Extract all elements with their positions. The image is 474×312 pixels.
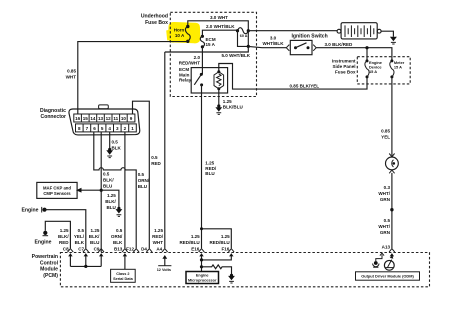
svg-text:RED/BLU: RED/BLU [179,240,199,245]
wire 3.0 BLK/RED [316,42,392,60]
svg-text:0.5: 0.5 [112,140,119,145]
fuse Engine Device 15A [365,59,383,78]
svg-text:1.25: 1.25 [191,234,200,239]
junction dots E16/F16 merge [200,258,203,268]
svg-text:1.25: 1.25 [91,228,100,233]
ground (1.25 BLK/BLU) [116,209,123,216]
svg-text:CMP Sensors: CMP Sensors [43,191,71,196]
connector chevron left of ignition switch [286,45,289,51]
svg-text:1.25: 1.25 [205,161,214,166]
svg-text:4: 4 [108,126,111,131]
svg-text:9: 9 [130,116,133,121]
svg-text:BLK: BLK [112,146,122,151]
svg-text:Powertrain: Powertrain [32,254,58,260]
svg-text:5: 5 [101,126,104,131]
label 0.5 WHT/GRN [378,218,390,235]
wire 0.5 BLK/BLU pin5 down [100,132,115,252]
Diagnostic Connector body [40,105,140,135]
fuse Horn 10A [174,25,191,43]
svg-text:2.0: 2.0 [194,55,201,60]
svg-text:12 Volts: 12 Volts [157,268,171,272]
wire 0.85 WHT pin16 to horn fuse [66,42,188,114]
svg-text:2: 2 [124,126,127,131]
svg-text:1.25: 1.25 [107,193,116,198]
svg-text:11: 11 [113,116,118,121]
svg-text:BLK/: BLK/ [105,199,116,204]
svg-text:BLK/: BLK/ [103,178,114,183]
svg-text:YEL: YEL [381,135,390,140]
svg-text:RED: RED [151,161,161,166]
svg-text:Diagnostic: Diagnostic [40,108,66,114]
wire 0.85 BLK/YEL (engine device fuse to relay coil) [219,64,367,90]
svg-text:BLU: BLU [205,171,214,176]
svg-text:WHT/BLK: WHT/BLK [263,41,285,46]
Class 2 Serial Data box [111,269,136,282]
svg-text:YEL/: YEL/ [74,234,85,239]
pin arrow F16 [202,249,235,260]
svg-text:1.25: 1.25 [154,228,163,233]
svg-text:BLU: BLU [90,240,99,245]
svg-text:15 A: 15 A [369,69,377,74]
wire 3.0 WHT (horn fuse top to 60A fuse) [188,15,249,31]
svg-text:5.0 WHT/BLK: 5.0 WHT/BLK [222,53,251,58]
svg-text:WHT: WHT [153,240,164,245]
wire 2.0 RED/WHT (ECM fuse to relay contact) [179,47,203,75]
svg-text:Relay: Relay [179,78,192,83]
wire 0.5 BLK pin4 to ground [108,132,121,151]
svg-text:3.0 BLK/RED: 3.0 BLK/RED [325,42,354,47]
svg-text:BLK: BLK [75,240,85,245]
svg-text:Microprocessor: Microprocessor [188,278,217,282]
svg-text:RED: RED [59,240,69,245]
svg-text:3.0 WHT: 3.0 WHT [210,15,228,20]
svg-text:Module: Module [40,267,58,273]
label C8 column [58,228,69,251]
svg-text:BLK/: BLK/ [58,234,69,239]
battery [337,23,381,39]
svg-text:0.85 BLK/YEL: 0.85 BLK/YEL [290,84,320,89]
svg-text:Fuse Box: Fuse Box [145,20,168,26]
svg-text:MAF CKP and: MAF CKP and [43,186,71,191]
wire 0.5 ORN/BLU pin6 to PCM pin F12 with crossovers [94,132,150,248]
pin arrow A13 [389,249,395,257]
svg-text:BLU: BLU [138,184,147,189]
ground (resistor) [228,274,235,283]
svg-text:6: 6 [93,126,96,131]
svg-text:0.3: 0.3 [384,185,391,190]
svg-text:ORN/: ORN/ [111,234,123,239]
svg-text:Engine: Engine [196,274,209,278]
svg-text:15 A: 15 A [206,42,216,47]
engine ground 2 (C8 feed) [35,221,71,248]
pin arrow C7 [83,249,89,267]
svg-text:0.5: 0.5 [116,228,123,233]
connector pin cells top row 16-9 [74,114,135,122]
svg-text:0.5: 0.5 [384,218,391,223]
wire 1.25 RED/BLU (relay switch output down to PCM) [202,85,217,248]
svg-text:Instrument: Instrument [332,59,356,64]
svg-text:0.5: 0.5 [151,155,158,160]
relay coil with resistor [214,70,224,90]
svg-text:60 A: 60 A [240,34,248,38]
svg-text:B13: B13 [114,246,123,251]
svg-text:0.85: 0.85 [381,129,390,134]
relay switch contact [194,73,203,87]
svg-text:13: 13 [98,116,104,121]
svg-text:Side Panel: Side Panel [333,64,356,69]
ground bus joining C8 C7 C9 inside PCM [70,265,101,268]
svg-text:Horn: Horn [174,28,185,33]
ground (battery) [390,37,397,44]
svg-text:A4: A4 [156,246,162,251]
label B13 column [111,228,123,251]
wire 0.5 RED pin9 to PCM pin D4 [133,101,162,248]
label 0.3 WHT/GRN [378,185,390,202]
svg-text:1.25: 1.25 [60,228,69,233]
engine ground 1 (C7 feed) [22,207,86,248]
wire 0.5 ORN/BLK pin2 to PCM pin B13 [124,132,126,248]
label E16 column [179,234,200,252]
label C7 column [74,228,85,251]
pin arrow A4 [162,249,168,252]
wire 0.85 YEL meter fuse down [381,77,392,156]
fuse ECM 15A [200,35,216,49]
pin arrow B13 [122,249,128,270]
svg-text:BLU: BLU [103,184,112,189]
wire 5.0 WHT/BLK [165,46,251,58]
svg-text:8: 8 [78,126,81,131]
fuse 60A with loop [236,28,250,48]
pin arrow E16 [199,249,205,272]
wire branch to MAF sensors [76,188,101,193]
Output Driver Module (ODM) label box [356,272,420,280]
pin arrow C9 [98,249,104,267]
svg-text:Control: Control [40,260,59,266]
ODM lamp leg [373,253,385,267]
svg-text:GRN: GRN [380,197,390,202]
svg-text:D4: D4 [141,246,147,251]
svg-text:Engine: Engine [22,208,39,214]
svg-text:0.85: 0.85 [67,69,76,74]
svg-text:ORN/: ORN/ [138,178,150,183]
wire 60A fuse to battery [248,30,337,32]
Ignition Switch [290,34,327,55]
svg-text:F16: F16 [221,246,229,251]
svg-text:12: 12 [106,116,112,121]
ODM output transistor [384,255,394,270]
PCM / ODM dashed module band [32,253,430,287]
Underhood Fuse Box (dashed outline) [141,12,257,96]
wire branch to F16 [200,227,231,248]
12 Volts source arrow inside PCM [157,255,172,272]
svg-text:1.25: 1.25 [221,234,230,239]
in-line connector (circle) [386,154,399,249]
svg-text:WHT/: WHT/ [378,191,390,196]
svg-text:A13: A13 [382,244,391,249]
wire 1.25 RED/WHT down to PCM pin A4 [152,52,165,251]
svg-text:Connector: Connector [41,114,66,120]
svg-text:0.5: 0.5 [78,228,85,233]
svg-text:Fuse Box: Fuse Box [335,70,356,75]
svg-text:7: 7 [86,126,89,131]
svg-text:2.0 WHT/BLK: 2.0 WHT/BLK [206,24,235,29]
Instrument Side Panel Fuse Box (dashed) [332,57,410,84]
svg-text:WHT/: WHT/ [378,224,390,229]
svg-text:Underhood: Underhood [141,14,168,20]
svg-text:3: 3 [116,126,119,131]
svg-text:10: 10 [121,116,127,121]
svg-text:1: 1 [131,126,134,131]
svg-text:RED/BLU: RED/BLU [209,240,229,245]
label F16 column [209,234,230,252]
pin arrow C8 [68,249,74,267]
svg-text:RED/WHT: RED/WHT [179,60,200,65]
splice dot [390,208,393,211]
ground (pin 4) [106,150,113,157]
svg-text:RED/: RED/ [152,234,164,239]
svg-text:16: 16 [75,116,81,121]
svg-text:Serial Data: Serial Data [113,277,134,281]
svg-text:10 A: 10 A [175,33,185,38]
resistor (engine microprocessor pull-up) [202,265,232,275]
svg-text:BLK/BLU: BLK/BLU [223,104,243,109]
svg-text:GRN: GRN [380,230,390,235]
svg-text:Engine: Engine [35,239,52,245]
wire 2.0 WHT/BLK (ECM fuse top to 60A fuse left) [202,24,237,36]
pin arrow F12 [133,249,139,252]
svg-text:Output Driver Module (ODM): Output Driver Module (ODM) [361,274,414,279]
pin arrow D4 [147,249,153,252]
svg-text:Class 2: Class 2 [116,272,129,276]
svg-text:15 A: 15 A [394,64,402,69]
svg-text:0.5: 0.5 [103,171,110,176]
connector pin cells bottom row 8-1 [76,124,137,132]
svg-text:Ignition Switch: Ignition Switch [292,34,328,40]
wire relay coil to ground 1.25 BLK/BLU [217,89,243,110]
svg-text:BLU: BLU [106,205,115,210]
relay U1 ECM Main Relay [179,67,228,93]
svg-text:F12: F12 [126,246,134,251]
svg-text:0.5: 0.5 [138,172,145,177]
connector chevron right of ignition switch [313,45,316,51]
highlight on Horn fuse [166,22,200,43]
svg-text:E16: E16 [191,246,200,251]
svg-text:BLK: BLK [113,240,123,245]
svg-text:14: 14 [90,116,96,121]
svg-text:3.0: 3.0 [270,36,277,41]
svg-text:BLK/: BLK/ [89,234,100,239]
wire 1.25 BLK/BLU stub to ground [101,190,120,210]
wire battery to ground [381,31,393,37]
svg-text:1.25: 1.25 [223,99,232,104]
svg-text:15: 15 [83,116,89,121]
svg-text:(PCM): (PCM) [43,273,58,279]
Engine Microprocessor box [186,272,219,284]
svg-text:RED/: RED/ [205,166,217,171]
ground (relay coil) [215,107,222,114]
fuse Meter 15A [390,59,405,78]
MAF CKP and CMP Sensors box [37,182,77,198]
svg-text:WHT: WHT [66,75,77,80]
wire 3.0 WHT/BLK to ignition switch [248,36,286,48]
label C9 column [89,228,100,251]
